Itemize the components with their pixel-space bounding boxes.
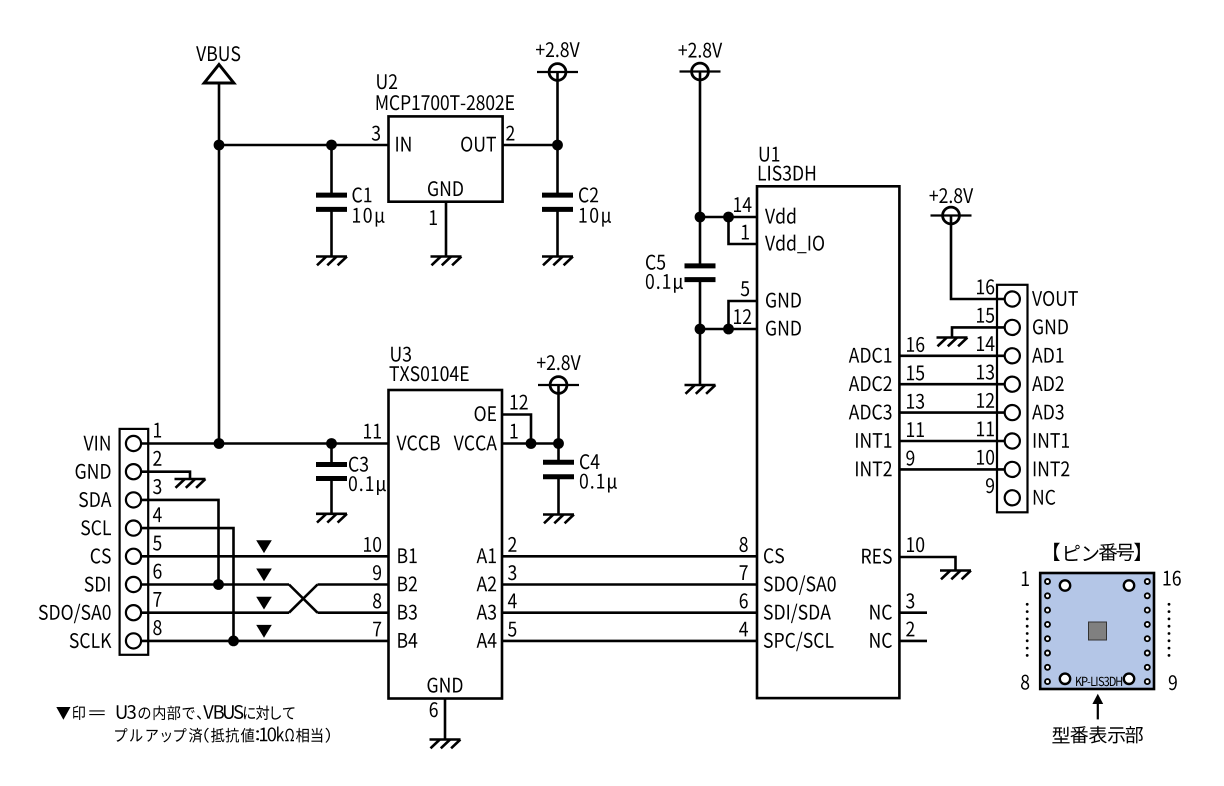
wire A1 to U1 CS (502, 555, 757, 558)
wire stub to U1 pin 1 Vdd_IO (729, 217, 758, 244)
wire VCCA to +2.8V (502, 442, 559, 445)
wire CN1 GND to ground (141, 472, 190, 479)
node VCCA/C4 junction (553, 438, 564, 449)
ground C3 (316, 514, 347, 523)
wire SCLK to U3 B4 (141, 640, 388, 643)
pin 6 U3 GND (430, 699, 445, 740)
pin 2 U2 OUT (506, 126, 514, 141)
node Vdd junction (695, 212, 706, 223)
pin 11 U1 INT1 (907, 422, 924, 437)
capacitor C3 (316, 444, 386, 514)
ground C4 (543, 515, 574, 524)
pin 4 U1 SPC/SCL (739, 622, 748, 637)
pin 10 U3 B1 (364, 537, 381, 552)
node label AD1 (1032, 348, 1063, 363)
callout arrow (1092, 694, 1103, 720)
pin 13 CN2 AD2 (977, 365, 994, 380)
pin 3 CN1 SDA (153, 479, 161, 494)
wire VBUS vertical (218, 83, 221, 444)
ground C2 (542, 257, 573, 266)
node VBUS/U2-IN junction (214, 140, 225, 151)
wire ADC3 to AD3 (899, 411, 1005, 414)
IC U3 TXS0104E level shifter (389, 347, 503, 699)
node label SCL (81, 520, 111, 535)
wire SDA to SDI net (141, 500, 218, 585)
power +2.8V (VCCA) (537, 355, 581, 393)
pin 10 U1 RES (907, 537, 924, 552)
power +2.8V (VOUT) (930, 188, 974, 224)
pin 6 U1 SDI/SDA (740, 593, 748, 608)
pin 16 U1 ADC1 (907, 337, 924, 352)
pin 3 U3 A2 (508, 565, 516, 580)
wire +2.8V to OUT node (556, 72, 559, 145)
IC U1 LIS3DH accelerometer (757, 147, 899, 698)
pin 1 U1 Vdd_IO (742, 225, 749, 240)
node SDA/SDI junction (213, 579, 224, 590)
note pull-up text line 2 (115, 727, 330, 743)
wire +2.8V to VOUT pin 16 (951, 216, 1005, 300)
pin 16 CN2 VOUT (977, 279, 994, 294)
node label SCLK (70, 633, 112, 648)
wire +2.8V to VCCA node (557, 385, 560, 444)
node label SDO/SA0 (39, 604, 111, 624)
pin 16 module corner (1164, 571, 1181, 586)
note pull-up text line 1 (56, 705, 294, 720)
pin 1 CN1 VIN (154, 423, 161, 438)
pin 12 CN2 AD3 (977, 393, 994, 408)
pin 9 U3 B2 (373, 565, 381, 580)
pin 15 CN2 GND (977, 308, 994, 323)
node OUT/C2 junction (552, 140, 563, 151)
pin 14 CN2 AD1 (977, 336, 995, 351)
ellipsis dots left (1026, 603, 1029, 657)
power +2.8V (U1 Vdd) (679, 43, 723, 80)
pin 3 U1 NC (906, 593, 914, 608)
node label VOUT (1032, 291, 1078, 306)
pin 7 U3 B4 (373, 622, 381, 637)
wire A2 to U1 SDO/SA0 (502, 583, 757, 586)
node label GND (76, 464, 111, 479)
wire GND row to U1 pin 12 (700, 328, 757, 331)
wire U2 OUT to +2.8V (503, 144, 558, 147)
wire SDI to crossover (141, 583, 289, 586)
pin 4 CN1 SCL (153, 507, 162, 522)
pin 5 U3 A4 (508, 622, 516, 637)
pin 12 U1 GND (734, 309, 751, 324)
pin 1 module corner (1022, 571, 1029, 586)
capacitor C2 (542, 145, 611, 257)
node label SDA (79, 492, 111, 507)
ground U1 supply (685, 385, 716, 394)
wire NC pin 3 stub (899, 611, 927, 614)
node C3 tap (326, 438, 337, 449)
capacitor C4 (543, 444, 617, 515)
pin 5 U1 GND (741, 281, 749, 296)
pull-up marker triangle (SCLK) (256, 625, 272, 638)
pin 2 U3 A1 (508, 537, 516, 552)
node OE junction (526, 438, 537, 449)
node label CS (91, 548, 111, 563)
wire Vdd row to U1 pin 14 (700, 216, 757, 219)
pull-up marker triangle (SDO) (256, 597, 272, 610)
node label AD2 (1032, 376, 1064, 391)
pin 6 CN1 SDI (154, 564, 162, 579)
wire stub to U1 pin 5 GND (729, 301, 758, 329)
pin 8 CN1 SCLK (153, 620, 161, 635)
pin 7 U1 SDO/SA0 (740, 565, 748, 580)
regulator U2 MCP1700T-2802E (377, 74, 514, 202)
wire A3 to U1 SDI/SDA (502, 611, 757, 614)
power terminal VBUS (196, 46, 240, 83)
ellipsis dots right (1168, 603, 1171, 657)
pin 13 U1 ADC3 (907, 394, 924, 409)
node GND stub junction (723, 324, 734, 335)
node C1 tap (326, 140, 337, 151)
wire ADC1 to AD1 (899, 354, 1005, 357)
ground U2 (431, 257, 462, 266)
ground C1 (316, 257, 347, 266)
pin 9 U1 INT2 (906, 451, 914, 466)
pin 11 U3 VCCB (364, 424, 381, 439)
pin 1 U2 GND (430, 202, 446, 257)
pin 11 CN2 INT1 (977, 422, 994, 437)
pin 1 U3 VCCA (511, 424, 518, 439)
wire SDO/SA0 to crossover (141, 611, 289, 614)
node label AD3 (1032, 405, 1064, 420)
wire NC pin 2 stub (899, 640, 927, 643)
node label VIN (84, 436, 110, 451)
label 型番表示部 (1052, 726, 1143, 744)
power +2.8V (C2) (536, 42, 580, 80)
module board KP-LIS3DH (1040, 573, 1154, 689)
connector CN2 (997, 285, 1028, 513)
ground RES (940, 571, 971, 580)
wire RES to ground (899, 557, 955, 571)
wire crossover SDI to B3 (289, 585, 318, 613)
wire +2.8V down to Vdd row (699, 72, 702, 218)
node label INT2 (1034, 461, 1070, 476)
node label SDI (85, 577, 110, 592)
wire VBUS to U2 IN (219, 144, 389, 147)
wire INT2 (899, 468, 1005, 471)
pin 8 U3 B3 (373, 593, 381, 608)
pin 12 U3 OE (511, 395, 528, 410)
node label INT1 (1034, 433, 1069, 448)
node Vdd stub junction (723, 212, 734, 223)
module diagram title ピン番号 (1054, 543, 1140, 561)
node label GND (1033, 319, 1068, 334)
pin 8 module corner (1021, 675, 1029, 690)
wire ADC2 to AD2 (899, 383, 1005, 386)
wire GND pin 15 to ground (952, 327, 1005, 337)
pin 3 U2 IN (372, 126, 380, 141)
wire B3 segment (318, 611, 389, 614)
node VBUS/VIN junction (214, 438, 225, 449)
wire B2 segment (318, 583, 389, 586)
pin 8 U1 CS (740, 537, 748, 552)
pull-up marker triangle (SDI) (256, 569, 272, 582)
pin 9 CN2 NC (986, 478, 994, 493)
pin 9 module corner (1169, 675, 1177, 690)
node label NC (1034, 490, 1056, 505)
pin 5 CN1 CS (153, 536, 161, 551)
pin 2 CN1 GND (153, 451, 161, 466)
node GND junction (C5) (695, 324, 706, 335)
node SCL/SCLK junction (228, 636, 239, 647)
pin 15 U1 ADC2 (907, 366, 924, 381)
ground CN2 GND (937, 338, 968, 347)
capacitor C1 (316, 145, 385, 257)
wire crossover SDO to B2 (289, 585, 318, 613)
wire CS to U3 B1 (141, 555, 388, 558)
wire SCL to SCLK net (141, 528, 233, 641)
ground U3 (430, 740, 461, 749)
wire C5 to ground (699, 329, 702, 385)
wire A4 to U1 SPC/SCL (502, 640, 757, 643)
pin 7 CN1 SDO/SA0 (153, 592, 161, 607)
wire VIN row to U3 VCCB (141, 442, 388, 445)
pin 10 CN2 INT2 (977, 450, 994, 465)
pin 2 U1 NC (906, 622, 914, 637)
capacitor C5 (646, 217, 716, 329)
wire INT1 (899, 440, 1005, 443)
pull-up marker triangle (CS) (256, 540, 272, 553)
wire OE to VCCA net (502, 415, 531, 444)
connector CN1 (120, 429, 149, 655)
ground CN1 GND (175, 479, 206, 488)
pin 14 U1 Vdd (734, 197, 752, 212)
pin 4 U3 A3 (508, 594, 517, 609)
